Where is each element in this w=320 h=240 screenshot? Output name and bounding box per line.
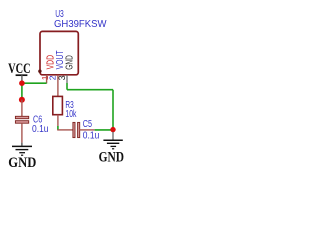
pin 1 lead (46, 75, 48, 84)
capacitor C5 left pin (57, 129, 73, 131)
junction ground node (110, 127, 115, 132)
VCC bar (16, 74, 28, 76)
capacitor C6 top pin (21, 100, 23, 117)
ground flag right stub (112, 132, 114, 140)
svg-text:GND: GND (99, 150, 124, 166)
svg-text:2: 2 (47, 75, 57, 80)
wire pin3 down (66, 83, 68, 90)
ground left bars (12, 145, 32, 147)
wire pin3 across (67, 89, 113, 91)
resistor R3 bottom pin (57, 115, 59, 126)
resistor R3 body (53, 96, 63, 114)
wire VCC to pin1 (22, 82, 47, 84)
capacitor C6 plates (15, 116, 28, 118)
pin 2 lead down to R3 (57, 75, 59, 97)
capacitor C5 plates (73, 122, 75, 137)
ground right bars (103, 139, 122, 141)
wire C5 to ground junction (95, 129, 113, 131)
wire down to junction (112, 90, 114, 130)
ground flag left stub (21, 143, 23, 146)
svg-text:C5: C5 (83, 119, 93, 130)
VCC stub (21, 75, 23, 82)
svg-text:GH39FKSW: GH39FKSW (54, 19, 107, 30)
pin 1 corner dot (38, 70, 41, 73)
capacitor C5 right pin (80, 129, 95, 131)
svg-text:0.1u: 0.1u (83, 131, 100, 142)
wire R3 to C5 row (57, 126, 59, 130)
IC body U3 (40, 31, 78, 74)
svg-text:3: 3 (57, 75, 67, 80)
svg-text:GND: GND (8, 155, 36, 171)
wire VCC down to C6 (21, 83, 23, 99)
pin 3 lead (66, 75, 68, 83)
svg-text:0.1u: 0.1u (32, 124, 49, 135)
junction C6 node (19, 97, 25, 103)
capacitor C6 bottom pin (21, 123, 23, 142)
junction VCC node (19, 80, 25, 86)
svg-text:10k: 10k (65, 109, 76, 120)
svg-text:GND: GND (64, 55, 75, 70)
